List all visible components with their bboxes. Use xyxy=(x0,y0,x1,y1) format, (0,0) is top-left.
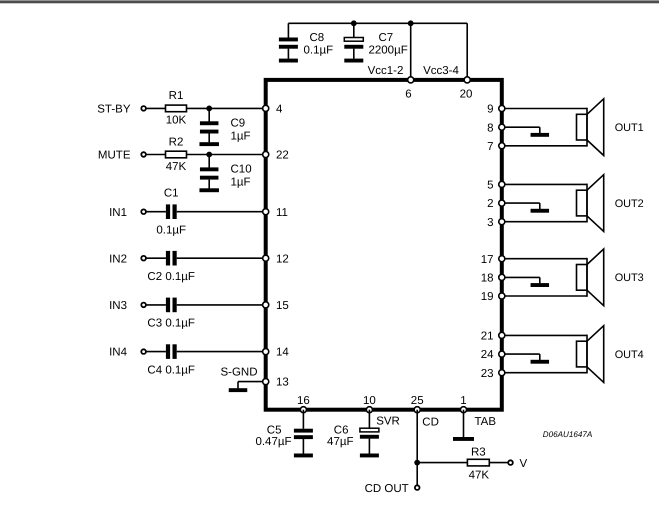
svg-text:3: 3 xyxy=(487,217,493,229)
svg-text:Vcc1-2: Vcc1-2 xyxy=(368,65,404,77)
svg-text:6: 6 xyxy=(405,88,411,100)
svg-text:C1: C1 xyxy=(164,188,179,200)
svg-text:C9: C9 xyxy=(231,117,246,129)
svg-text:1µF: 1µF xyxy=(231,176,251,188)
svg-text:17: 17 xyxy=(481,254,494,266)
svg-text:CD: CD xyxy=(422,416,439,428)
svg-text:C6: C6 xyxy=(334,424,349,436)
svg-text:2: 2 xyxy=(487,198,493,210)
svg-text:TAB: TAB xyxy=(475,416,497,428)
svg-text:D06AU1647A: D06AU1647A xyxy=(543,430,593,439)
svg-text:4: 4 xyxy=(276,104,283,116)
svg-text:SVR: SVR xyxy=(376,415,400,427)
svg-text:47K: 47K xyxy=(166,161,187,173)
svg-text:IN4: IN4 xyxy=(109,347,128,359)
svg-text:12: 12 xyxy=(276,253,289,265)
svg-text:16: 16 xyxy=(297,395,310,407)
svg-text:18: 18 xyxy=(481,273,494,285)
svg-text:OUT4: OUT4 xyxy=(615,349,644,361)
svg-text:1: 1 xyxy=(460,395,466,407)
svg-text:24: 24 xyxy=(481,349,494,361)
svg-text:47K: 47K xyxy=(469,469,490,481)
svg-text:S-GND: S-GND xyxy=(220,367,257,379)
svg-text:1µF: 1µF xyxy=(231,130,251,142)
svg-text:IN1: IN1 xyxy=(109,207,127,219)
svg-text:C10: C10 xyxy=(231,163,252,175)
svg-text:IN3: IN3 xyxy=(109,300,127,312)
svg-text:7: 7 xyxy=(487,141,493,153)
svg-text:11: 11 xyxy=(276,207,288,219)
svg-text:MUTE: MUTE xyxy=(98,150,131,162)
svg-text:20: 20 xyxy=(460,88,473,100)
svg-text:C2 0.1µF: C2 0.1µF xyxy=(147,271,195,283)
svg-text:OUT3: OUT3 xyxy=(615,272,644,284)
svg-text:OUT2: OUT2 xyxy=(615,198,644,210)
svg-text:2200µF: 2200µF xyxy=(369,44,408,56)
svg-text:15: 15 xyxy=(276,300,289,312)
svg-text:CD OUT: CD OUT xyxy=(365,483,409,495)
svg-text:10K: 10K xyxy=(166,115,187,127)
svg-text:10: 10 xyxy=(363,395,376,407)
svg-text:C5: C5 xyxy=(267,424,282,436)
svg-text:0.1µF: 0.1µF xyxy=(156,224,186,236)
svg-text:14: 14 xyxy=(276,347,289,359)
svg-text:19: 19 xyxy=(481,291,494,303)
svg-text:22: 22 xyxy=(276,150,289,162)
svg-text:C8: C8 xyxy=(310,32,325,44)
svg-text:R3: R3 xyxy=(471,447,486,459)
svg-text:9: 9 xyxy=(487,104,493,116)
svg-text:IN2: IN2 xyxy=(109,253,127,265)
svg-text:0.47µF: 0.47µF xyxy=(255,436,291,448)
svg-text:13: 13 xyxy=(276,377,289,389)
svg-text:Vcc3-4: Vcc3-4 xyxy=(423,65,459,77)
svg-text:C7: C7 xyxy=(379,32,394,44)
svg-text:8: 8 xyxy=(487,122,493,134)
svg-text:C4 0.1µF: C4 0.1µF xyxy=(147,364,195,376)
svg-text:ST-BY: ST-BY xyxy=(97,104,131,116)
svg-text:0.1µF: 0.1µF xyxy=(304,44,334,56)
svg-text:R2: R2 xyxy=(169,136,184,148)
svg-text:47µF: 47µF xyxy=(327,436,353,448)
svg-text:5: 5 xyxy=(487,180,493,192)
svg-text:21: 21 xyxy=(481,331,494,343)
svg-text:C3 0.1µF: C3 0.1µF xyxy=(147,318,195,330)
svg-text:25: 25 xyxy=(411,395,424,407)
svg-text:V: V xyxy=(520,458,528,470)
svg-text:23: 23 xyxy=(481,368,494,380)
svg-text:R1: R1 xyxy=(169,90,184,102)
svg-text:OUT1: OUT1 xyxy=(615,122,644,134)
